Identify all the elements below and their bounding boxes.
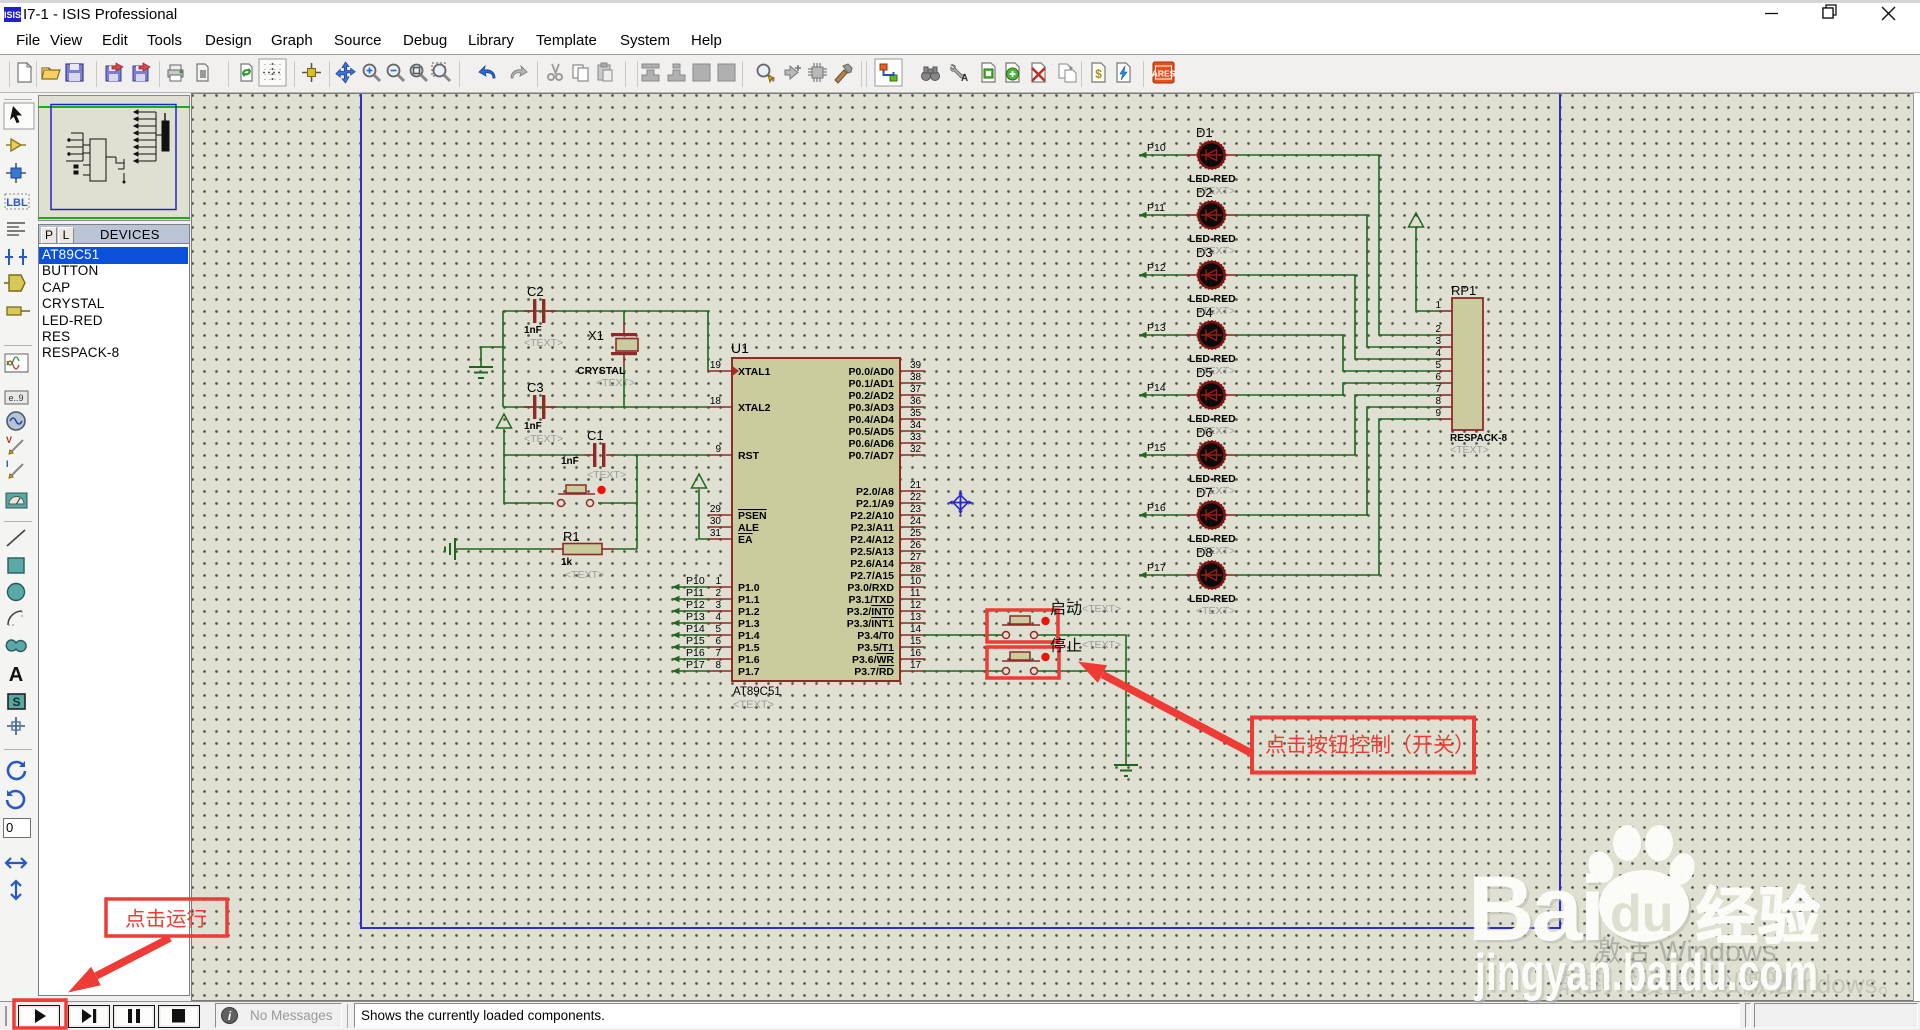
wire LED D3 to RP1 pin 4 bbox=[1236, 275, 1438, 359]
wire P1.7 with net label P17 bbox=[672, 659, 708, 674]
LED D2 LED-RED bbox=[1186, 185, 1236, 257]
wire net P12 to LED D3 bbox=[1139, 262, 1186, 278]
wire LED D5 to RP1 pin 6 bbox=[1236, 383, 1438, 395]
wire P1.6 with net label P16 bbox=[672, 647, 708, 662]
wire P1.3 with net label P13 bbox=[672, 611, 708, 626]
wire start button to ground vertical bbox=[1038, 635, 1126, 765]
LED D6 LED-RED bbox=[1186, 425, 1236, 497]
wire net P14 to LED D5 bbox=[1139, 382, 1186, 398]
wire crystal top lead bbox=[623, 311, 625, 334]
LED D1 LED-RED bbox=[1186, 125, 1236, 197]
wire P3.4/T0 to start button bbox=[924, 634, 1002, 636]
LED D7 LED-RED bbox=[1186, 485, 1236, 557]
wire LED D4 to RP1 pin 5 bbox=[1236, 335, 1438, 371]
button stop (tingzhi) bbox=[1002, 652, 1050, 675]
wire net P11 to LED D2 bbox=[1139, 202, 1186, 218]
wire P1.5 with net label P15 bbox=[672, 635, 708, 650]
ground (R1 left) bbox=[445, 538, 455, 560]
svg-text:<TEXT>: <TEXT> bbox=[1082, 603, 1121, 615]
annotation box: click run bbox=[106, 899, 227, 936]
LED D8 LED-RED bbox=[1186, 545, 1236, 617]
wire LED D6 to RP1 pin 7 bbox=[1236, 395, 1438, 455]
button start (qidong) bbox=[1002, 616, 1050, 639]
wire net P16 to LED D7 bbox=[1139, 502, 1186, 518]
wire C2-C3 left vertical bbox=[502, 311, 504, 407]
wire net P15 to LED D6 bbox=[1139, 442, 1186, 458]
wire P3.7/RD to stop button bbox=[924, 670, 1002, 672]
wire C3 net to XTAL2 bbox=[503, 406, 708, 408]
wire to ground tap bbox=[481, 347, 503, 367]
watermark activate windows bbox=[1593, 936, 1777, 968]
crystal X1 bbox=[577, 328, 638, 389]
wire crystal bottom lead bbox=[623, 355, 625, 407]
button (reset) bbox=[558, 485, 606, 507]
annotation box around start button bbox=[987, 610, 1058, 642]
LED D4 LED-RED bbox=[1186, 305, 1236, 377]
label qidong (start) bbox=[1051, 601, 1082, 616]
ground (C2/C3) bbox=[469, 367, 493, 378]
wire R1 net bbox=[456, 548, 637, 550]
watermark faint settings line bbox=[1561, 969, 1887, 999]
resistor R1 1k bbox=[551, 529, 614, 581]
wire net P10 to LED D1 bbox=[1139, 142, 1186, 158]
LED D3 LED-RED bbox=[1186, 245, 1236, 317]
wire LED D7 to RP1 pin 8 bbox=[1236, 407, 1438, 515]
wire button right to C1 junction vertical bbox=[598, 455, 637, 549]
power terminal VCC (EA) bbox=[692, 474, 709, 539]
wire P1.1 with net label P11 bbox=[672, 587, 708, 602]
power terminal VCC (RST) bbox=[497, 414, 512, 455]
annotation arrow to play button bbox=[68, 935, 172, 993]
wire P1.4 with net label P14 bbox=[672, 623, 708, 638]
capacitor C3 bbox=[524, 380, 563, 445]
wire RST left vertical to button bbox=[504, 455, 553, 503]
wire stop button to ground vertical bbox=[1038, 670, 1126, 672]
annotation arrow to buttons bbox=[1078, 662, 1253, 757]
wire P1.0 with net label P10 bbox=[672, 575, 708, 590]
wire net P17 to LED D8 bbox=[1139, 562, 1186, 578]
LED D5 LED-RED bbox=[1186, 365, 1236, 437]
annotation box around stop button bbox=[987, 647, 1059, 678]
svg-text:du: du bbox=[1610, 885, 1674, 943]
label tingzhi (stop) bbox=[1051, 637, 1082, 652]
watermark baidu jingyan bbox=[1471, 861, 1821, 1005]
ground (buttons) bbox=[1114, 765, 1138, 776]
wire C2 net to XTAL1 bbox=[503, 311, 708, 371]
svg-text:jingyan.baidu.com: jingyan.baidu.com bbox=[1474, 944, 1818, 1002]
power terminal VCC (RP1 pin1) bbox=[1409, 213, 1439, 311]
wire net P13 to LED D4 bbox=[1139, 322, 1186, 338]
wire LED D2 to RP1 pin 3 bbox=[1236, 215, 1438, 347]
wire LED D8 to RP1 pin 9 bbox=[1236, 419, 1438, 575]
cursor crosshair bbox=[949, 491, 973, 515]
annotation box around play button bbox=[14, 1000, 66, 1028]
annotation box: click button control (switch) bbox=[1252, 718, 1474, 773]
resistor pack RP1 RESPACK-8 bbox=[1435, 283, 1507, 456]
wire P1.2 with net label P12 bbox=[672, 599, 708, 614]
svg-text:<TEXT>: <TEXT> bbox=[1082, 639, 1121, 651]
IC U1 AT89C51 bbox=[708, 340, 924, 711]
capacitor C1 bbox=[561, 428, 626, 481]
wire RST net bbox=[504, 454, 708, 456]
capacitor C2 bbox=[524, 284, 563, 349]
wire LED D1 to RP1 pin 2 bbox=[1236, 155, 1438, 335]
